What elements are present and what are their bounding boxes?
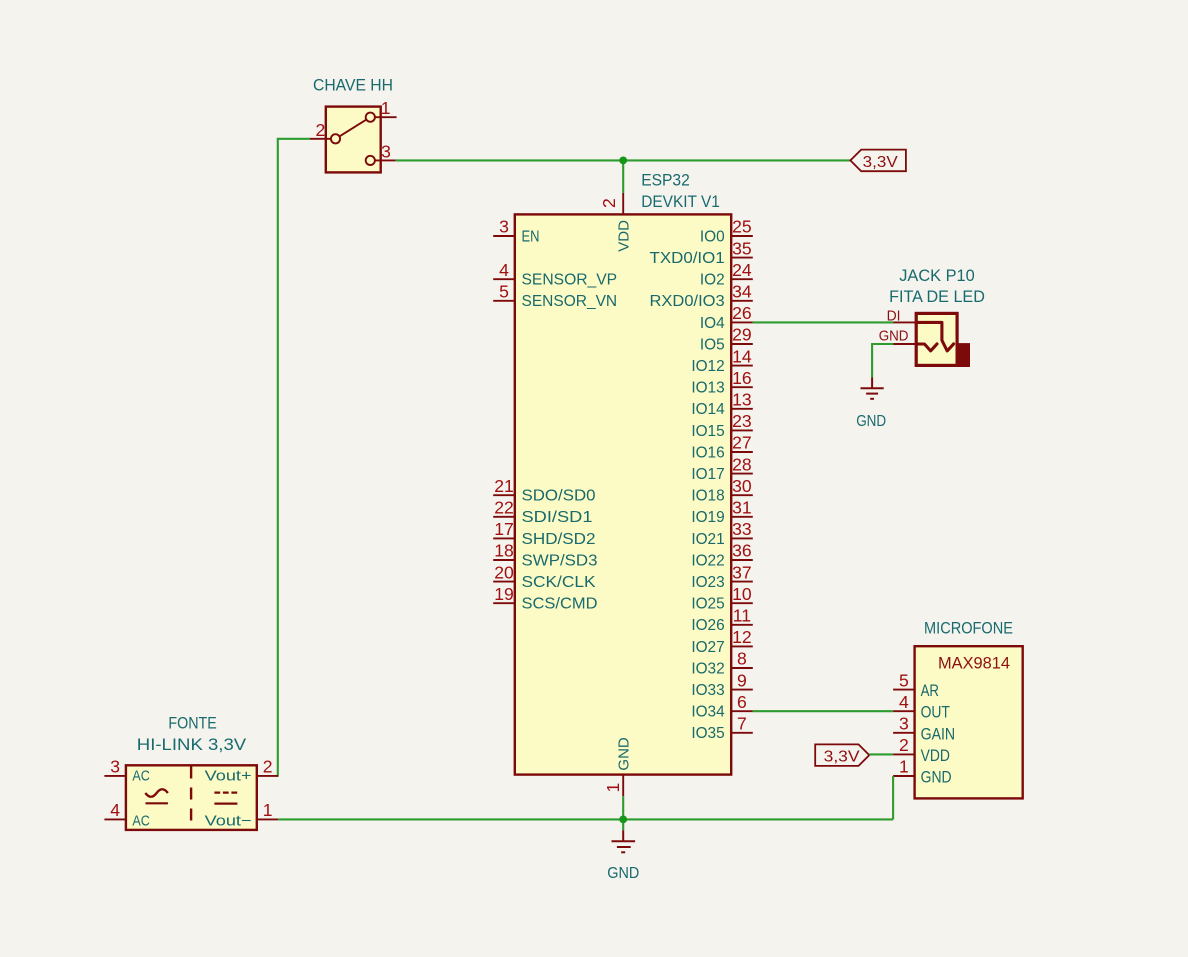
ESP32 pin 19 SCS/CMD — [493, 584, 597, 613]
svg-text:34: 34 — [732, 282, 752, 302]
ESP32 pin 22 SDI/SD1 — [493, 498, 592, 527]
svg-text:3: 3 — [110, 756, 120, 776]
ESP32 pin 17 SHD/SD2 — [493, 519, 595, 548]
ESP32 pin 27 IO16 — [691, 433, 752, 462]
FONTE divider dashed line — [190, 767, 192, 829]
ground symbol (bottom) — [607, 830, 639, 882]
FONTE pin 2 Vout+ — [205, 756, 279, 784]
jack pin GND — [879, 328, 916, 345]
ESP32 pin 1 GND (bottom) — [603, 737, 632, 796]
svg-text:36: 36 — [732, 541, 752, 561]
svg-text:IO4: IO4 — [700, 315, 725, 332]
svg-text:31: 31 — [732, 498, 752, 518]
svg-text:4: 4 — [499, 260, 509, 280]
ESP32 pin 25 IO0 — [700, 217, 753, 246]
power label 3,3V (top right) — [850, 150, 906, 172]
svg-text:5: 5 — [899, 670, 909, 690]
ESP32 pin 36 IO22 — [691, 541, 752, 570]
jack pin DI — [887, 308, 916, 325]
svg-text:21: 21 — [494, 476, 514, 496]
svg-text:4: 4 — [110, 800, 120, 820]
svg-text:VDD: VDD — [921, 747, 950, 765]
svg-text:SENSOR_VP: SENSOR_VP — [522, 272, 618, 289]
wire switch pin3 to 3,3V label — [396, 159, 851, 161]
ESP32 pin 11 IO26 — [691, 606, 752, 635]
svg-text:CHAVE HH: CHAVE HH — [313, 77, 393, 95]
svg-text:IO13: IO13 — [691, 380, 724, 397]
svg-text:FONTE: FONTE — [168, 715, 217, 733]
svg-text:MICROFONE: MICROFONE — [924, 620, 1013, 638]
wire junction to ESP32 VDD — [622, 160, 624, 193]
wire jack GND to ground — [872, 344, 893, 378]
svg-text:29: 29 — [732, 325, 752, 345]
ESP32 pin 18 SWP/SD3 — [493, 541, 597, 570]
ESP32 pin 8 IO32 — [691, 649, 752, 678]
svg-text:37: 37 — [732, 562, 752, 582]
svg-text:16: 16 — [732, 368, 752, 388]
svg-text:RXD0/IO3: RXD0/IO3 — [650, 293, 725, 310]
mic pin 2 VDD — [893, 735, 950, 765]
svg-text:IO12: IO12 — [691, 358, 724, 375]
svg-text:DI: DI — [887, 308, 901, 325]
ESP32 pin 12 IO27 — [691, 627, 752, 656]
svg-text:17: 17 — [494, 519, 514, 539]
ESP32 pin 31 IO19 — [691, 498, 752, 527]
ESP32 pin 33 IO21 — [691, 519, 752, 548]
ESP32 pin 3 EN — [493, 217, 539, 246]
wire 3,3V label to mic VDD — [869, 753, 893, 755]
ESP32 pin 20 SCK/CLK — [493, 562, 596, 591]
mic pin 4 OUT — [893, 692, 950, 722]
svg-text:SHD/SD2: SHD/SD2 — [522, 531, 596, 548]
svg-text:IO33: IO33 — [691, 682, 724, 699]
svg-text:6: 6 — [737, 692, 747, 712]
FONTE pin 4 AC — [104, 800, 150, 830]
svg-text:28: 28 — [732, 454, 752, 474]
svg-text:IO2: IO2 — [700, 272, 725, 289]
mic pin 5 AR — [893, 670, 939, 700]
svg-text:AC: AC — [132, 768, 150, 785]
svg-text:IO25: IO25 — [691, 596, 724, 613]
svg-text:GAIN: GAIN — [921, 725, 956, 743]
svg-text:ESP32: ESP32 — [641, 172, 690, 190]
svg-text:4: 4 — [899, 692, 909, 712]
switch SW1 pin 2 — [310, 120, 340, 144]
svg-text:AC: AC — [132, 812, 150, 829]
svg-text:SENSOR_VN: SENSOR_VN — [522, 293, 618, 310]
svg-text:TXD0/IO1: TXD0/IO1 — [650, 250, 725, 267]
svg-text:1: 1 — [381, 98, 391, 118]
svg-text:DEVKIT V1: DEVKIT V1 — [641, 193, 720, 211]
ESP32 pin 6 IO34 — [691, 692, 752, 721]
svg-text:GND: GND — [607, 865, 639, 882]
svg-text:23: 23 — [732, 411, 752, 431]
svg-text:13: 13 — [732, 390, 752, 410]
ESP32 pin 24 IO2 — [700, 260, 753, 289]
svg-text:1: 1 — [603, 783, 623, 793]
svg-text:26: 26 — [732, 303, 752, 323]
svg-text:8: 8 — [737, 649, 747, 669]
svg-text:HI-LINK 3,3V: HI-LINK 3,3V — [137, 736, 247, 754]
svg-text:9: 9 — [737, 670, 747, 690]
junction at ground bus — [619, 816, 627, 824]
svg-text:19: 19 — [494, 584, 514, 604]
svg-text:11: 11 — [733, 606, 751, 626]
mic pin 1 GND — [893, 757, 952, 787]
svg-text:SWP/SD3: SWP/SD3 — [522, 552, 598, 569]
ESP32 pin 13 IO14 — [691, 390, 752, 419]
ESP32 pin 9 IO33 — [691, 670, 752, 699]
svg-text:IO16: IO16 — [691, 444, 724, 461]
svg-text:IO27: IO27 — [691, 639, 724, 656]
svg-text:2: 2 — [263, 756, 273, 776]
svg-text:JACK P10: JACK P10 — [899, 267, 975, 285]
svg-text:18: 18 — [494, 541, 514, 561]
svg-text:5: 5 — [499, 282, 509, 302]
ESP32 pin 35 TXD0/IO1 — [650, 238, 753, 267]
FONTE pin 3 AC — [104, 756, 150, 784]
svg-text:33: 33 — [732, 519, 752, 539]
wire ESP32 IO4 to jack DI — [753, 321, 894, 323]
svg-text:IO26: IO26 — [691, 617, 724, 634]
svg-text:SDO/SD0: SDO/SD0 — [522, 488, 596, 505]
svg-text:GND: GND — [856, 413, 886, 430]
switch SW1 lever — [339, 120, 366, 137]
svg-text:10: 10 — [732, 584, 752, 604]
svg-text:GND: GND — [879, 328, 909, 345]
svg-text:IO23: IO23 — [691, 574, 724, 591]
svg-text:IO15: IO15 — [691, 423, 724, 440]
ESP32 pin 14 IO12 — [691, 346, 752, 375]
svg-text:3: 3 — [899, 714, 909, 734]
svg-text:SCK/CLK: SCK/CLK — [522, 574, 597, 591]
ESP32 pin 5 SENSOR_VN — [493, 282, 617, 311]
svg-text:IO0: IO0 — [700, 228, 725, 245]
svg-text:Vout−: Vout− — [205, 812, 252, 829]
junction at VDD wire — [619, 157, 627, 165]
svg-text:3,3V: 3,3V — [824, 749, 861, 766]
svg-text:3,3V: 3,3V — [863, 154, 899, 171]
ESP32 pin 34 RXD0/IO3 — [650, 282, 753, 311]
svg-text:12: 12 — [732, 627, 752, 647]
svg-text:AR: AR — [921, 682, 939, 700]
wire mic GND down to ground bus — [892, 776, 894, 819]
svg-text:IO18: IO18 — [691, 488, 724, 505]
svg-text:27: 27 — [732, 433, 752, 453]
svg-text:MAX9814: MAX9814 — [938, 655, 1010, 673]
svg-text:2: 2 — [599, 198, 619, 208]
MCU U1 ESP32 DEVKIT V1 body — [515, 172, 731, 775]
svg-text:7: 7 — [737, 714, 747, 734]
ESP32 pin 29 IO5 — [700, 325, 753, 354]
switch SW1 CHAVE HH — [313, 77, 393, 173]
power label 3,3V (mic) — [815, 744, 869, 766]
ESP32 pin 16 IO13 — [691, 368, 752, 397]
ESP32 pin 37 IO23 — [691, 562, 752, 591]
svg-text:30: 30 — [732, 476, 752, 496]
ESP32 pin 26 IO4 — [700, 303, 753, 332]
ESP32 pin 28 IO17 — [691, 454, 752, 483]
svg-text:IO34: IO34 — [691, 704, 725, 721]
ESP32 pin 4 SENSOR_VP — [493, 260, 617, 289]
ESP32 pin 21 SDO/SD0 — [493, 476, 595, 505]
connector J1 JACK P10 FITA DE LED — [889, 267, 985, 367]
FONTE AC sine symbol — [145, 789, 168, 797]
svg-text:35: 35 — [732, 238, 752, 258]
FONTE pin 1 Vout- — [205, 800, 279, 830]
svg-text:IO14: IO14 — [691, 401, 725, 418]
mic module U2 MICROFONE MAX9814 body — [915, 620, 1023, 799]
svg-text:EN: EN — [522, 228, 540, 245]
svg-text:IO19: IO19 — [691, 509, 724, 526]
svg-text:25: 25 — [732, 217, 752, 237]
svg-text:3: 3 — [499, 217, 509, 237]
svg-text:2: 2 — [899, 735, 909, 755]
svg-text:1: 1 — [899, 757, 909, 777]
ESP32 pin 7 IO35 — [691, 714, 752, 743]
svg-text:20: 20 — [494, 562, 514, 582]
svg-text:VDD: VDD — [615, 220, 632, 252]
ground symbol (jack) — [856, 378, 886, 430]
svg-text:SCS/CMD: SCS/CMD — [522, 596, 598, 613]
power supply PS1 FONTE HI-LINK 3,3V body — [126, 715, 257, 830]
svg-text:22: 22 — [494, 498, 514, 518]
svg-text:IO5: IO5 — [700, 336, 725, 353]
switch SW1 pin 3 — [366, 141, 396, 165]
ESP32 pin 23 IO15 — [691, 411, 752, 440]
svg-text:GND: GND — [921, 769, 952, 787]
svg-text:GND: GND — [615, 737, 632, 771]
svg-text:FITA DE LED: FITA DE LED — [889, 288, 985, 306]
svg-text:3: 3 — [381, 141, 391, 161]
wire ESP32 GND to ground symbol — [622, 796, 624, 830]
svg-text:1: 1 — [263, 800, 273, 820]
svg-text:IO35: IO35 — [691, 725, 724, 742]
ESP32 pin 30 IO18 — [691, 476, 752, 505]
ESP32 pin 10 IO25 — [691, 584, 752, 613]
svg-text:IO21: IO21 — [691, 531, 724, 548]
svg-text:IO32: IO32 — [691, 660, 724, 677]
svg-text:IO22: IO22 — [691, 552, 724, 569]
FONTE DC symbol — [214, 791, 237, 793]
svg-text:Vout+: Vout+ — [205, 768, 252, 785]
wire switch pin2 to FONTE Vout+ — [278, 139, 310, 776]
svg-text:14: 14 — [732, 346, 752, 366]
svg-text:OUT: OUT — [921, 704, 950, 722]
mic pin 3 GAIN — [893, 714, 955, 744]
wire ground bus FONTE Vout- to mic GND — [278, 818, 893, 820]
svg-text:2: 2 — [316, 120, 326, 140]
svg-text:IO17: IO17 — [691, 466, 724, 483]
svg-text:SDI/SD1: SDI/SD1 — [522, 509, 593, 526]
ESP32 pin 2 VDD (top) — [599, 193, 632, 252]
wire ESP32 IO34 to mic OUT — [753, 710, 893, 712]
svg-text:24: 24 — [732, 260, 752, 280]
switch SW1 pin 1 — [366, 98, 397, 122]
